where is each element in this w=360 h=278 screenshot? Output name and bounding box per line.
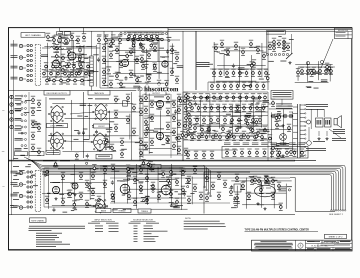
component xyxy=(261,82,265,90)
vertical bus wire xyxy=(267,31,269,90)
label PHONOGRAPH ACCESSORY SOCKET xyxy=(306,104,328,107)
value label xyxy=(62,211,67,214)
table header underline xyxy=(92,220,116,222)
label xyxy=(109,230,119,233)
AM-FM pin label xyxy=(243,143,250,145)
wire xyxy=(23,207,26,209)
capacitor xyxy=(229,120,232,125)
value label xyxy=(315,72,319,75)
wire xyxy=(295,81,329,83)
power transformer xyxy=(293,104,306,158)
component xyxy=(271,192,275,200)
value label xyxy=(261,137,266,140)
value label xyxy=(244,84,248,87)
value label xyxy=(325,68,330,71)
label xyxy=(104,34,109,37)
component xyxy=(110,191,114,199)
rotary switch S2 front xyxy=(93,103,110,120)
selenium rectifier xyxy=(280,134,287,141)
component xyxy=(103,166,107,174)
component xyxy=(172,142,176,150)
component xyxy=(53,160,57,168)
label xyxy=(245,115,252,117)
value label xyxy=(143,148,148,151)
svg-text:SEE SHEET 2: SEE SHEET 2 xyxy=(329,214,344,216)
value label xyxy=(112,208,118,211)
value label xyxy=(32,126,37,129)
component xyxy=(238,69,242,77)
component xyxy=(44,62,48,70)
value label xyxy=(177,204,183,207)
wire xyxy=(171,43,173,73)
component xyxy=(271,99,275,107)
value label xyxy=(153,130,158,133)
component xyxy=(178,97,182,105)
component xyxy=(145,124,149,132)
note line xyxy=(184,225,226,228)
component xyxy=(67,190,71,198)
wire xyxy=(110,177,290,179)
component xyxy=(135,56,139,64)
component xyxy=(300,67,304,75)
switch contact xyxy=(27,191,29,193)
switch contact xyxy=(30,181,32,183)
component xyxy=(46,33,50,41)
component xyxy=(287,124,291,132)
label AUX 2 xyxy=(11,182,18,184)
component xyxy=(79,62,83,70)
component xyxy=(214,131,218,139)
tube V4 xyxy=(156,100,163,107)
wire xyxy=(126,208,187,210)
component xyxy=(266,74,270,82)
component xyxy=(188,116,192,124)
label xyxy=(88,222,100,225)
value label xyxy=(108,45,112,48)
terminal label xyxy=(13,172,19,175)
switch contact xyxy=(25,120,27,122)
label box LOUD 2 xyxy=(141,165,161,169)
node xyxy=(152,190,154,192)
component xyxy=(37,100,41,108)
value label xyxy=(149,151,153,154)
label box LOUD 1 FRONT xyxy=(47,124,68,128)
component xyxy=(111,194,115,202)
value label xyxy=(86,45,92,48)
svg-text:FRONT: FRONT xyxy=(98,126,105,128)
value label xyxy=(120,180,125,183)
component xyxy=(277,182,281,190)
value label xyxy=(74,208,77,211)
component xyxy=(180,131,184,139)
wire xyxy=(260,105,262,127)
component xyxy=(187,196,191,204)
component xyxy=(214,44,218,52)
component xyxy=(118,36,122,44)
value label xyxy=(33,184,38,187)
wire xyxy=(183,100,268,102)
node xyxy=(187,186,189,188)
component xyxy=(144,118,148,126)
value label xyxy=(117,71,121,74)
component xyxy=(205,194,209,202)
component xyxy=(109,51,113,59)
value label xyxy=(71,63,75,66)
AM-FM pin label xyxy=(280,143,287,145)
selenium X xyxy=(281,135,286,140)
socket pins xyxy=(317,120,322,125)
label xyxy=(15,125,21,128)
switch contact xyxy=(21,126,23,128)
label box xyxy=(29,152,44,156)
component xyxy=(45,76,49,84)
node xyxy=(251,103,253,105)
AM-FM pin label xyxy=(298,143,305,145)
label xyxy=(273,92,292,97)
node xyxy=(124,32,126,34)
value label xyxy=(137,80,142,83)
component xyxy=(225,133,229,141)
wire xyxy=(291,112,293,152)
jack EXTRA R xyxy=(19,194,22,197)
component xyxy=(37,124,41,132)
wire xyxy=(91,31,93,56)
component xyxy=(324,67,328,75)
bus wire to sheet 2 xyxy=(42,165,346,211)
fuse box xyxy=(65,32,71,35)
component xyxy=(205,93,209,101)
wire xyxy=(72,40,74,76)
component C xyxy=(61,66,65,74)
value label xyxy=(248,127,252,130)
wire xyxy=(270,129,292,131)
component xyxy=(216,104,220,112)
value label xyxy=(277,125,283,128)
label xyxy=(335,248,351,251)
bus drop wire xyxy=(100,165,205,188)
wire xyxy=(64,141,93,142)
component xyxy=(268,134,272,142)
capacitor xyxy=(124,76,127,81)
value label xyxy=(306,85,311,88)
table row xyxy=(134,225,138,228)
title block text line xyxy=(255,242,293,245)
component xyxy=(55,52,59,60)
label xyxy=(15,110,21,113)
component xyxy=(218,133,222,141)
component xyxy=(242,104,246,112)
wire xyxy=(100,87,168,89)
component xyxy=(161,170,165,178)
label xyxy=(15,95,21,98)
component xyxy=(232,133,236,141)
component xyxy=(177,94,181,102)
label V4 xyxy=(154,96,164,99)
label xyxy=(146,222,159,225)
vertical bus wire xyxy=(195,31,197,90)
component xyxy=(277,40,281,48)
ground xyxy=(317,137,320,140)
switch contact xyxy=(27,74,29,76)
value label xyxy=(256,102,259,105)
value label xyxy=(72,182,77,185)
table header underline xyxy=(131,220,156,222)
component xyxy=(181,168,185,176)
value label xyxy=(47,192,50,195)
value label xyxy=(206,129,211,132)
value label xyxy=(142,51,148,54)
jack TUNER R xyxy=(19,206,22,209)
label box RECORDER OUTPUT xyxy=(44,91,70,95)
wire xyxy=(99,44,101,88)
wire xyxy=(317,61,319,80)
wire xyxy=(70,112,94,114)
label xyxy=(84,159,89,162)
component xyxy=(184,92,188,100)
component xyxy=(31,132,35,140)
node xyxy=(152,38,155,41)
component xyxy=(202,116,206,124)
component xyxy=(157,192,161,200)
wire xyxy=(231,180,291,182)
value label xyxy=(64,34,68,37)
wire xyxy=(108,39,180,41)
component xyxy=(207,126,211,134)
component xyxy=(131,41,135,49)
component xyxy=(42,69,46,77)
node xyxy=(137,38,140,41)
wire xyxy=(110,202,230,204)
component xyxy=(177,146,181,154)
component xyxy=(282,44,286,52)
title underline xyxy=(245,230,319,233)
component xyxy=(212,69,216,77)
switch contact xyxy=(30,69,32,71)
component xyxy=(92,164,96,172)
box power xyxy=(271,91,293,100)
label xyxy=(189,132,196,134)
component xyxy=(329,67,333,75)
component xyxy=(306,67,310,75)
component xyxy=(141,62,145,70)
wire xyxy=(124,30,162,32)
component xyxy=(192,93,196,101)
wire xyxy=(23,172,26,174)
component xyxy=(170,46,174,54)
note list item xyxy=(36,241,62,244)
component xyxy=(186,93,190,101)
node xyxy=(44,174,46,176)
label xyxy=(332,138,346,141)
switch contact xyxy=(30,49,32,51)
component xyxy=(318,67,322,75)
wire xyxy=(195,135,259,137)
component xyxy=(31,144,35,152)
component xyxy=(70,69,74,77)
tube V2 xyxy=(121,59,128,66)
label xyxy=(263,129,270,131)
wire xyxy=(295,64,332,66)
wire xyxy=(310,109,312,129)
label xyxy=(317,248,330,251)
tube V8 xyxy=(120,184,130,194)
component xyxy=(264,69,268,77)
enclosure wire xyxy=(295,178,335,212)
AM-FM pin label xyxy=(252,143,259,145)
component xyxy=(223,180,227,188)
capacitor xyxy=(97,57,100,62)
component xyxy=(139,183,143,191)
svg-text:TREBLE: TREBLE xyxy=(141,211,149,213)
switch contact xyxy=(30,191,32,193)
wire xyxy=(271,112,273,158)
section divider vertical wire xyxy=(167,28,169,91)
label xyxy=(76,67,84,70)
wire xyxy=(55,68,57,75)
node xyxy=(161,38,164,41)
label xyxy=(92,125,104,127)
component xyxy=(169,168,173,176)
component xyxy=(262,52,266,60)
wire xyxy=(134,39,136,77)
wire xyxy=(201,107,266,109)
component xyxy=(265,176,269,184)
component xyxy=(139,149,143,157)
capacitor xyxy=(111,180,114,185)
value label xyxy=(247,63,252,66)
component xyxy=(73,76,77,84)
component xyxy=(207,124,211,132)
wire xyxy=(28,92,30,158)
table row xyxy=(134,232,138,235)
label xyxy=(126,175,131,178)
value label xyxy=(50,36,54,39)
speaker xyxy=(334,116,342,128)
capacitor xyxy=(174,109,177,114)
value label xyxy=(88,97,93,100)
value label xyxy=(91,187,95,190)
component xyxy=(67,60,71,68)
value label xyxy=(25,165,30,168)
component xyxy=(104,36,108,44)
component xyxy=(139,166,143,174)
component xyxy=(257,177,261,185)
component xyxy=(234,42,238,50)
value label xyxy=(250,121,256,124)
terminal xyxy=(10,110,13,113)
bus wire to sheet 2 xyxy=(42,172,337,212)
wire xyxy=(307,62,309,82)
component xyxy=(59,76,63,84)
wire xyxy=(170,164,172,207)
value label xyxy=(73,138,78,141)
wire xyxy=(268,103,275,105)
label xyxy=(76,60,84,63)
component xyxy=(149,41,153,49)
wire xyxy=(329,64,331,81)
value label xyxy=(224,48,229,51)
label xyxy=(129,51,136,53)
value label xyxy=(24,147,28,150)
capacitor xyxy=(233,196,236,201)
pilot lamp xyxy=(307,141,312,146)
wire xyxy=(103,31,105,40)
capacitor xyxy=(183,192,186,197)
component xyxy=(144,94,148,102)
component xyxy=(200,130,204,138)
label xyxy=(111,34,116,37)
bottom section divider xyxy=(9,213,296,215)
value label xyxy=(278,142,282,145)
label xyxy=(185,182,190,185)
gang switch outline xyxy=(35,45,40,86)
value label xyxy=(56,124,62,127)
value label xyxy=(166,101,170,104)
svg-text:TREBLE: TREBLE xyxy=(118,210,126,212)
component xyxy=(235,126,239,134)
value label xyxy=(159,190,163,193)
component xyxy=(72,200,76,208)
value label xyxy=(281,156,285,159)
title block text line xyxy=(259,248,289,251)
svg-text:SHEET 1 OF 2: SHEET 1 OF 2 xyxy=(329,237,344,239)
wire xyxy=(308,127,310,140)
terminal label xyxy=(13,165,19,168)
value label xyxy=(132,74,136,77)
value label xyxy=(122,194,125,197)
value label xyxy=(121,86,126,89)
value label xyxy=(24,111,30,114)
label xyxy=(313,140,325,143)
label xyxy=(335,247,350,250)
selector arrow xyxy=(286,53,293,59)
component xyxy=(61,172,65,180)
node xyxy=(170,205,172,207)
wire xyxy=(105,35,107,83)
label xyxy=(294,159,316,162)
label xyxy=(306,148,326,151)
wire xyxy=(129,114,131,140)
node xyxy=(86,162,88,164)
value label xyxy=(231,206,237,209)
label AUX 1 xyxy=(11,171,18,173)
value label xyxy=(104,84,109,87)
node xyxy=(142,38,145,41)
component xyxy=(296,68,300,76)
wire xyxy=(216,80,256,82)
component xyxy=(181,186,185,194)
box MUTE xyxy=(123,101,128,106)
component xyxy=(271,144,275,152)
value label xyxy=(75,39,78,42)
component xyxy=(157,80,161,88)
component xyxy=(245,119,249,127)
value label xyxy=(308,68,313,71)
value label xyxy=(174,190,177,193)
switch contact xyxy=(27,171,29,173)
wire xyxy=(44,45,96,47)
value label xyxy=(153,49,157,52)
switch contact xyxy=(30,196,32,198)
wire xyxy=(23,195,26,197)
socket xyxy=(325,118,332,127)
component xyxy=(222,82,226,90)
value label xyxy=(27,191,30,194)
component xyxy=(152,62,156,70)
watermark hhscott.com xyxy=(137,86,178,93)
label box OUTPUT xyxy=(146,91,166,95)
value label xyxy=(268,60,274,63)
